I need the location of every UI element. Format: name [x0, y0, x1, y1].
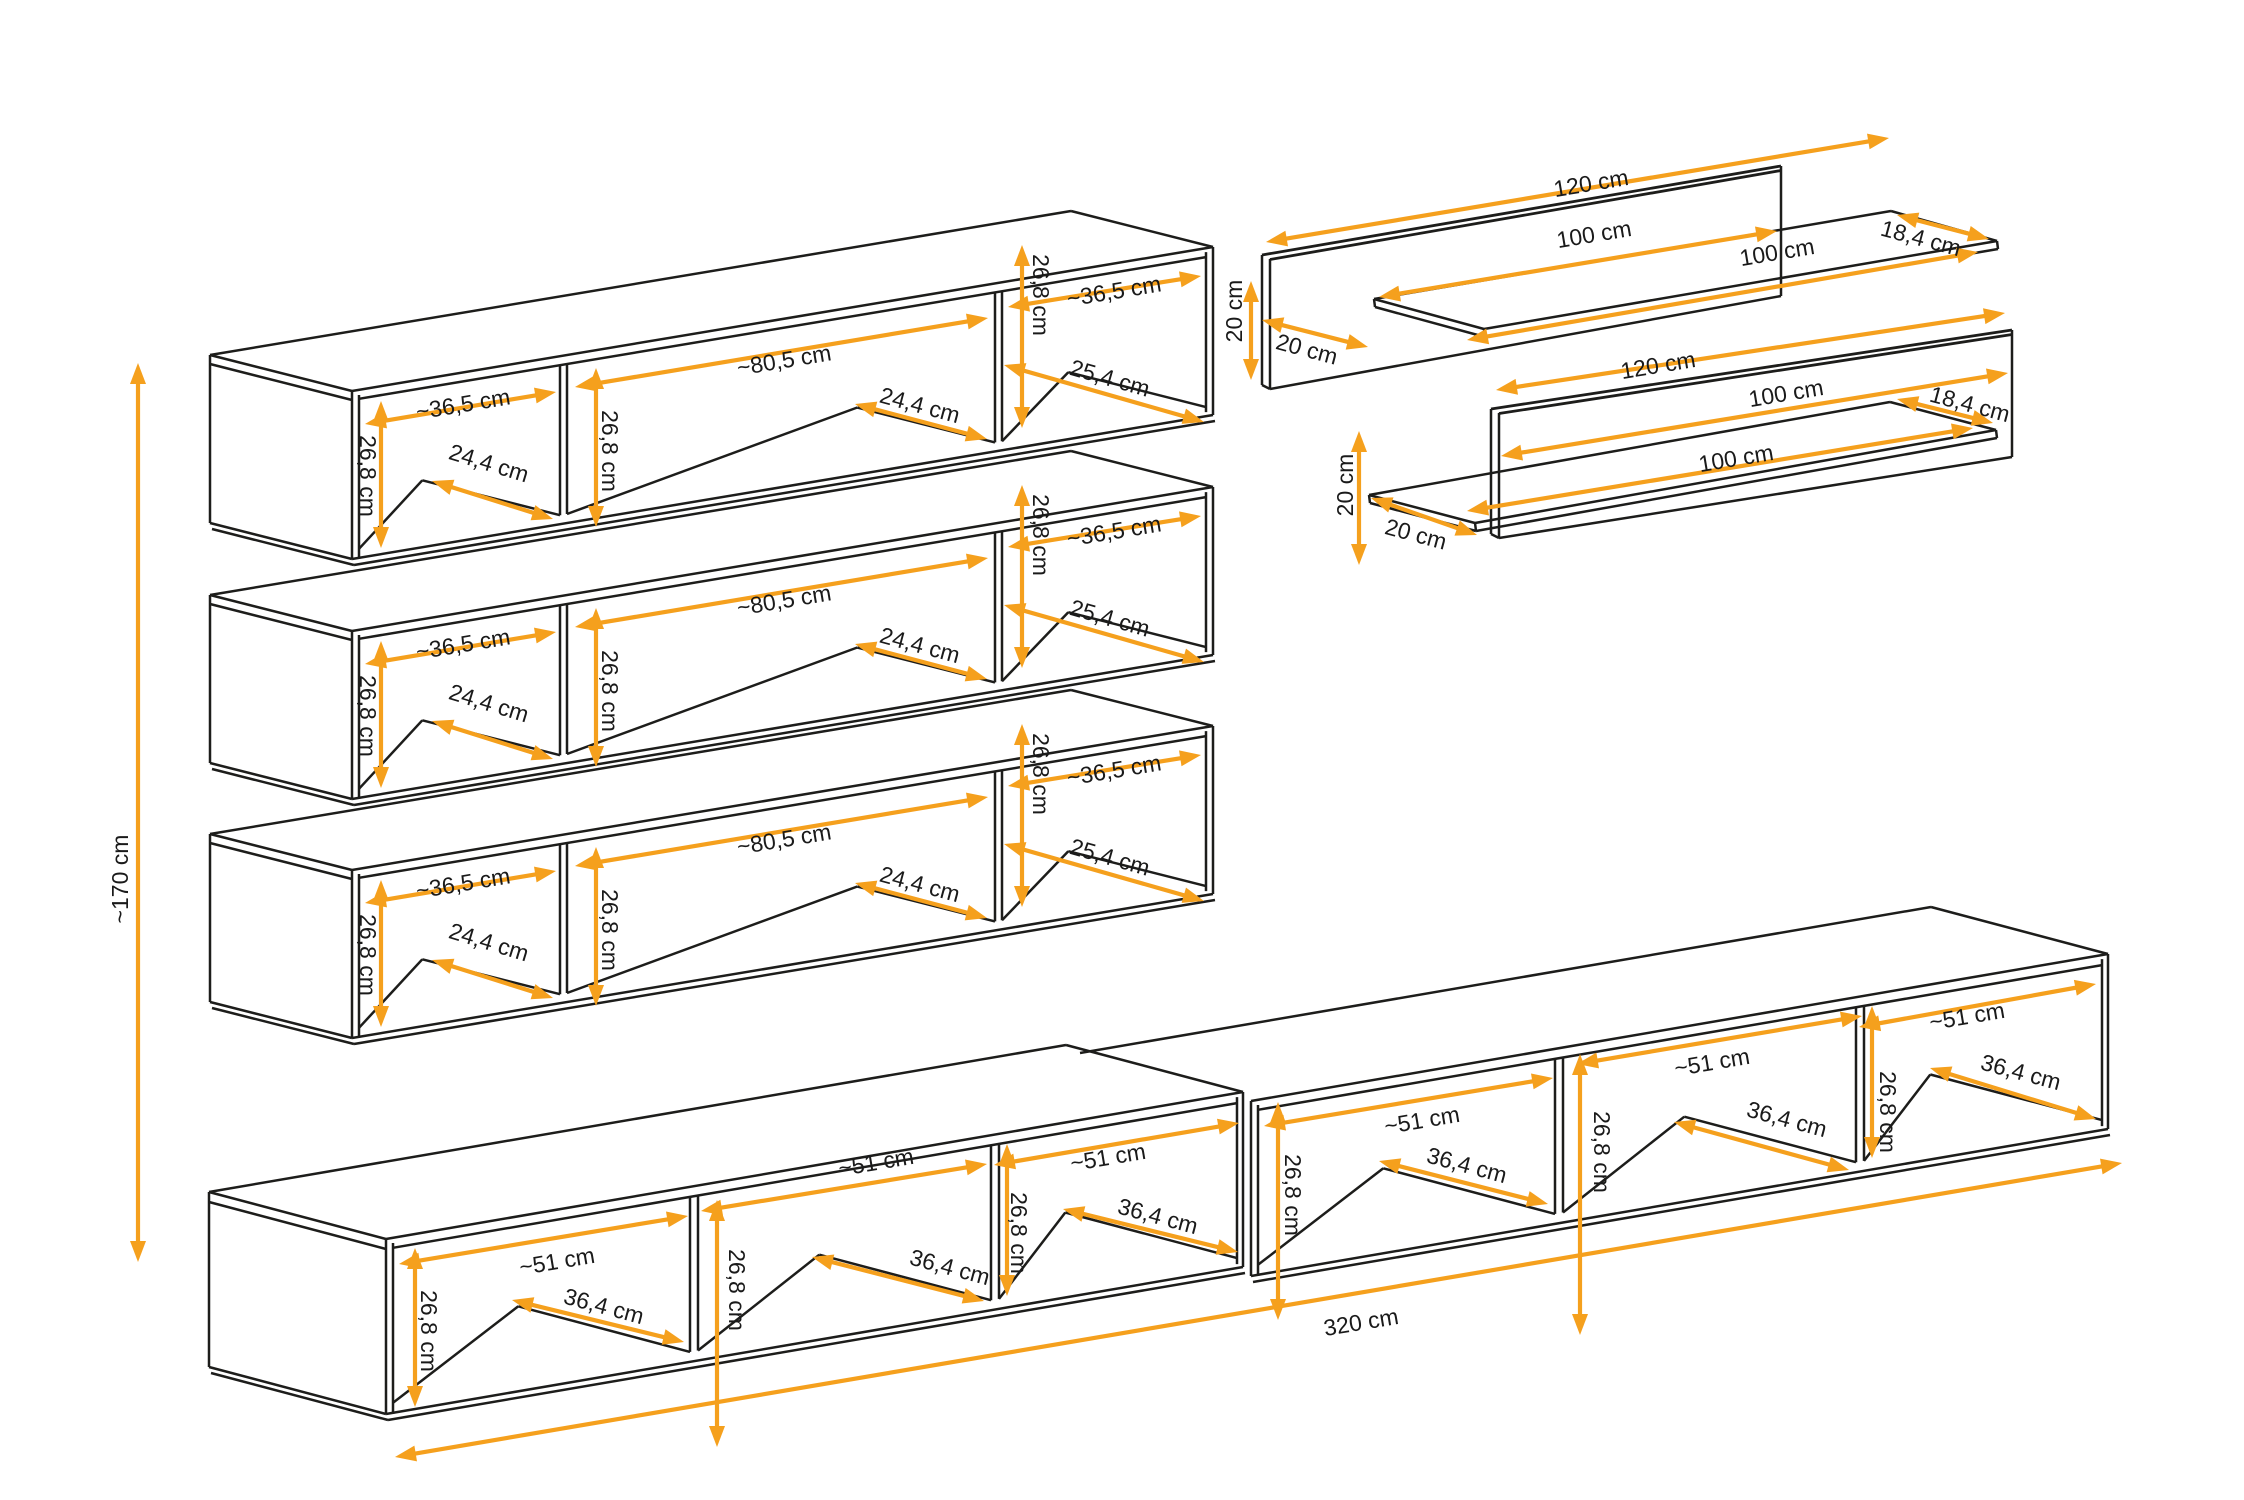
cabinet W2 dim ~36,5 cm right — [1008, 510, 1201, 551]
cabinet B2 dim ~51 cm mid — [1577, 1012, 1862, 1082]
cabinet B1 dim 36,4 cm mid — [812, 1244, 993, 1304]
cabinet B2 dim 26,8 cm mid — [1572, 1054, 1615, 1335]
cabinet W3 partition 2 — [857, 770, 1002, 921]
cabinet B2 dim 36,4 cm mid — [1674, 1096, 1849, 1172]
cabinet B1 right wall floor edge — [1065, 1213, 1237, 1259]
cabinet B1 dim ~51 cm mid — [701, 1143, 987, 1216]
cabinet W3 dim ~36,5 cm right — [1008, 749, 1201, 790]
shelf S2 dim 100 cm lower — [1467, 424, 1973, 516]
cabinet W3 dim 26,8 cm mid — [588, 847, 623, 1006]
cabinet B1 partition 2 — [819, 1144, 999, 1300]
cabinet B2 partition 2 — [1684, 1006, 1864, 1162]
overall height dim ~170 cm — [107, 363, 146, 1262]
cabinet W3 dim 26,8 cm right — [1014, 724, 1054, 907]
cabinet W3 dim 25,4 cm right — [1004, 833, 1204, 903]
svg-text:26,8 cm: 26,8 cm — [597, 889, 623, 971]
svg-text:26,8 cm: 26,8 cm — [1589, 1111, 1615, 1193]
shelf S1 dim 18,4 cm — [1878, 213, 1989, 262]
cabinet B2 right wall floor edge — [1930, 1075, 2102, 1121]
svg-text:26,8 cm: 26,8 cm — [416, 1290, 442, 1372]
cabinet W1 partition 2 — [857, 291, 1002, 442]
shelf S1 dim 100 cm upper — [1379, 215, 1777, 302]
svg-text:26,8 cm: 26,8 cm — [597, 410, 623, 492]
overall width dim 320 cm — [395, 1159, 2122, 1462]
svg-text:26,8 cm: 26,8 cm — [1028, 494, 1054, 576]
cabinet W3 dim ~80,5 cm — [575, 793, 988, 871]
cabinet B2 dim 26,8 cm left — [1270, 1102, 1306, 1320]
shelf S1 dim 100 cm lower — [1467, 233, 1978, 344]
cabinet W1 dim 26,8 cm right — [1014, 245, 1054, 428]
shelf S1 dim 20 cm height — [1221, 280, 1259, 380]
cabinet W1 outline — [210, 211, 1215, 565]
cabinet B2 dim ~51 cm left — [1264, 1074, 1553, 1140]
cabinet B2 outline — [1080, 907, 2110, 1282]
cabinet B1 dim 36,4 cm left — [512, 1283, 684, 1345]
cabinet W2 partition 1 — [422, 604, 567, 755]
cabinet W3 outline — [210, 690, 1215, 1044]
cabinet W1 partition 1 — [422, 364, 567, 515]
cabinet W1 dim 24,4 cm left — [432, 439, 553, 521]
cabinet W2 dim 26,8 cm right — [1014, 485, 1054, 668]
shelf S2 dim 20 cm height — [1332, 431, 1367, 565]
shelf S1 board — [1374, 211, 1998, 337]
cabinet W2 dim ~36,5 cm left — [365, 623, 556, 668]
cabinet W1 dim ~36,5 cm left — [365, 383, 556, 428]
cabinet B2 dim 26,8 cm right — [1864, 1006, 1901, 1158]
shelf S2 dim 20 cm depth — [1371, 497, 1477, 554]
cabinet W2 outline — [210, 451, 1215, 805]
svg-text:20 cm: 20 cm — [1221, 280, 1247, 343]
cabinet W2 partition 2 — [857, 531, 1002, 682]
cabinet W3 right wall floor edge — [1068, 851, 1206, 886]
cabinet W1 dim ~36,5 cm right — [1008, 270, 1201, 311]
cabinet W2 right wall floor edge — [1068, 612, 1206, 647]
svg-text:20 cm: 20 cm — [1332, 454, 1358, 517]
cabinet B2 dim ~51 cm right — [1859, 980, 2096, 1035]
cabinet W2 dim ~80,5 cm — [575, 554, 988, 632]
svg-text:26,8 cm: 26,8 cm — [724, 1249, 750, 1331]
svg-text:26,8 cm: 26,8 cm — [1028, 254, 1054, 336]
svg-text:26,8 cm: 26,8 cm — [1006, 1192, 1032, 1274]
shelf S1 dim 120 cm — [1266, 134, 1889, 247]
shelf S2 dim 18,4 cm — [1897, 381, 2013, 427]
svg-text:26,8 cm: 26,8 cm — [355, 914, 381, 996]
cabinet B1 dim 26,8 cm right — [999, 1144, 1032, 1296]
cabinet B1 dim 26,8 cm mid — [709, 1200, 750, 1447]
cabinet B2 partition 1 — [1383, 1058, 1563, 1214]
shelf S2 board — [1369, 402, 1997, 531]
svg-text:26,8 cm: 26,8 cm — [355, 675, 381, 757]
cabinet W2 dim 26,8 cm mid — [588, 608, 623, 767]
cabinet W3 dim 24,4 cm left — [432, 918, 553, 1000]
cabinet B2 dim 36,4 cm right — [1930, 1049, 2096, 1121]
cabinet W3 partition 1 — [422, 843, 567, 994]
cabinet W2 dim 25,4 cm right — [1004, 594, 1204, 664]
cabinet W3 dim 26,8 cm left — [355, 880, 389, 1027]
cabinet W3 dim 24,4 cm mid — [855, 861, 987, 921]
cabinet W1 dim ~80,5 cm — [575, 314, 988, 392]
cabinet W2 dim 26,8 cm left — [355, 641, 389, 788]
cabinet B1 dim ~51 cm left — [399, 1212, 688, 1281]
cabinet W3 dim ~36,5 cm left — [365, 862, 556, 907]
cabinet B1 outline — [209, 1045, 1245, 1420]
cabinet B1 dim 36,4 cm right — [1063, 1193, 1238, 1255]
cabinet W1 dim 25,4 cm right — [1004, 354, 1204, 424]
svg-text:26,8 cm: 26,8 cm — [597, 650, 623, 732]
cabinet W2 dim 24,4 cm left — [432, 679, 553, 761]
svg-text:26,8 cm: 26,8 cm — [355, 435, 381, 517]
shelf S1 back panel — [1262, 166, 1781, 389]
svg-text:26,8 cm: 26,8 cm — [1280, 1154, 1306, 1236]
shelf S1 dim 20 cm depth — [1262, 317, 1368, 369]
shelf S2 back panel — [1491, 330, 2012, 538]
svg-text:26,8 cm: 26,8 cm — [1875, 1071, 1901, 1153]
cabinet B1 dim 26,8 cm left — [407, 1248, 442, 1407]
cabinet B1 dim ~51 cm right — [994, 1119, 1239, 1176]
svg-text:~170 cm: ~170 cm — [107, 835, 133, 924]
cabinet B2 dim 36,4 cm left — [1379, 1142, 1548, 1207]
cabinet W2 dim 24,4 cm mid — [855, 622, 987, 682]
cabinet W1 dim 24,4 cm mid — [855, 382, 987, 442]
cabinet W1 dim 26,8 cm left — [355, 401, 389, 548]
svg-text:26,8 cm: 26,8 cm — [1028, 733, 1054, 815]
cabinet B1 partition 1 — [518, 1196, 698, 1352]
shelf S2 dim 120 cm — [1496, 308, 2005, 395]
shelf S2 dim 100 cm upper — [1501, 369, 2008, 461]
cabinet W1 right wall floor edge — [1068, 372, 1206, 407]
cabinet W1 dim 26,8 cm mid — [588, 368, 623, 527]
